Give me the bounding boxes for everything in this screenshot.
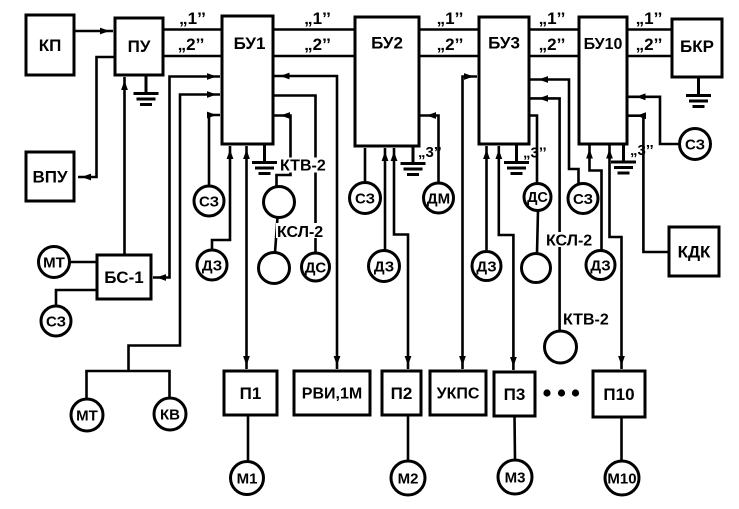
svg-text:М3: М3 — [505, 470, 526, 487]
wire: „1" bus БУ3-БУ10 — [529, 28, 579, 31]
wire ПУ to ВПУ — [78, 57, 115, 177]
circle ДЗ (under БУ10) — [586, 251, 615, 280]
circle СЗ (left) — [41, 306, 71, 336]
svg-text:КСЛ-2: КСЛ-2 — [546, 233, 592, 250]
svg-text:ДЗ: ДЗ — [202, 258, 222, 275]
svg-text:„2’’: „2’’ — [539, 35, 566, 54]
svg-text:„1’’: „1’’ — [304, 9, 331, 28]
svg-text:УКПС: УКПС — [437, 386, 480, 403]
wire: „1" bus БУ2-БУ3 — [419, 28, 479, 31]
svg-text:М1: М1 — [237, 471, 258, 488]
box ПУ — [115, 18, 163, 75]
circle СЗ (under БУ10) — [568, 184, 598, 214]
box БУ1 — [222, 16, 273, 144]
circle М1 — [231, 462, 264, 495]
circle СЗ (right of БКР) — [680, 129, 711, 160]
wire БУ10 bottom to П10 (arrows both ends) — [610, 146, 622, 370]
svg-text:БС-1: БС-1 — [104, 268, 143, 287]
box БУ2 — [355, 17, 419, 146]
svg-text:„2’’: „2’’ — [437, 35, 464, 54]
circle ДС (right of БУ3) — [524, 184, 551, 211]
ground under БУ10 — [611, 144, 636, 174]
box П1 — [224, 371, 277, 415]
svg-text:КТВ-2: КТВ-2 — [280, 158, 326, 175]
svg-text:ДС: ДС — [305, 260, 327, 277]
wire ДЗ to БУ3 bottom — [485, 146, 488, 252]
svg-text:„1’’: „1’’ — [437, 9, 464, 28]
box УКПС — [430, 371, 486, 415]
svg-text:РВИ,1М: РВИ,1М — [302, 386, 362, 403]
svg-text:СЗ: СЗ — [685, 137, 705, 154]
wire П10 to М10 — [620, 417, 623, 461]
ground under БУ3 — [504, 144, 529, 174]
wire БУ3 right to ДС — [529, 116, 537, 184]
ground under ПУ — [134, 75, 159, 105]
wire СЗ to БС-1 — [56, 290, 97, 306]
svg-text:„2’’: „2’’ — [304, 35, 331, 54]
svg-text:КВ: КВ — [160, 407, 180, 424]
svg-text:КП: КП — [39, 36, 62, 55]
wire БУ10 right to КДК — [627, 116, 669, 252]
circle М3 — [498, 460, 532, 494]
svg-text:МТ: МТ — [43, 255, 65, 272]
svg-text:ДЗ: ДЗ — [590, 258, 610, 275]
wire БУ3 right to КТВ-2 circle lower — [529, 98, 560, 331]
circle КСЛ-2 (unlabeled) — [259, 253, 290, 284]
wire БУ2 bottom to П2 (arrows both ends) — [394, 148, 408, 369]
wire КП to ПУ — [74, 30, 113, 33]
box П3 — [494, 372, 535, 416]
label КСЛ-2 (left) — [276, 223, 326, 238]
circle ДЗ (under БУ3) — [472, 252, 501, 281]
wire ДС to КСЛ-2 circle — [537, 211, 538, 254]
ground under БУ1 — [252, 144, 277, 174]
wire КТВ-2 circle to КСЛ-2 circle — [275, 218, 278, 253]
svg-text:„3’’: „3’’ — [630, 142, 654, 159]
wire ДЗ to БУ10 bottom — [590, 146, 602, 251]
wire БУ1 left / БС-1 right (arrows both ends) — [153, 77, 220, 278]
svg-text:П10: П10 — [603, 385, 634, 404]
dots between П3 and П10 — [543, 389, 550, 396]
svg-text:МТ: МТ — [76, 408, 98, 425]
box БКР — [672, 19, 722, 77]
circle МТ (bottom) — [71, 399, 103, 431]
svg-text:БКР: БКР — [680, 37, 714, 56]
circle ДС (under БУ1) — [302, 253, 330, 281]
label КСЛ-2 (right) — [544, 232, 595, 247]
wire ДМ to БУ2 right — [419, 116, 439, 184]
box КДК — [669, 227, 719, 276]
circle М10 — [605, 461, 639, 495]
svg-text:П2: П2 — [391, 384, 413, 403]
wire П1 to М1 — [247, 415, 250, 462]
svg-text:„1’’: „1’’ — [539, 9, 566, 28]
svg-text:М10: М10 — [607, 471, 636, 488]
circle КСЛ-2 right (unlabeled) — [522, 254, 551, 283]
wire БУ1 right to РВИ,1М (arrows both ends) — [273, 76, 337, 369]
svg-text:БУ1: БУ1 — [234, 34, 266, 53]
svg-text:КДК: КДК — [678, 243, 711, 262]
svg-text:ДС: ДС — [527, 190, 548, 206]
svg-text:М2: М2 — [398, 471, 419, 488]
wire: „2" bus БУ1-БУ2 — [273, 55, 355, 58]
circle КТВ-2 right (unlabeled) — [545, 331, 577, 363]
wire БУ3 left to УКПС (arrows both ends) — [463, 77, 478, 370]
svg-text:„3’’: „3’’ — [418, 144, 442, 161]
svg-text:ДЗ: ДЗ — [476, 259, 496, 276]
circle М2 — [391, 461, 425, 495]
svg-text:ПУ: ПУ — [128, 37, 151, 56]
svg-text:СЗ: СЗ — [199, 194, 219, 211]
svg-text:СЗ: СЗ — [573, 191, 593, 208]
box П10 — [593, 371, 645, 417]
wire СЗ to БУ1 left — [209, 115, 220, 186]
circle ДЗ (under БУ2) — [369, 251, 400, 282]
wire МТ/КВ to БУ1 left — [129, 95, 221, 372]
ground under БКР — [686, 77, 711, 107]
box БУ3 — [479, 17, 529, 144]
svg-text:ДМ: ДМ — [427, 191, 450, 208]
wire: „1" bus БУ10-БКР — [627, 28, 672, 31]
svg-text:СЗ: СЗ — [46, 314, 66, 331]
box КП — [26, 15, 74, 75]
circle МТ (left) — [39, 247, 70, 278]
svg-text:БУ2: БУ2 — [371, 34, 403, 53]
wire ДЗ to БУ1 bottom — [212, 146, 230, 250]
box БС-1 — [97, 255, 151, 299]
label КТВ-2 (left) — [279, 158, 330, 173]
wire П3 to М3 — [513, 416, 516, 460]
svg-text:СЗ: СЗ — [355, 191, 375, 208]
wire: „2" bus БУ2-БУ3 — [419, 55, 479, 58]
box ВПУ — [26, 152, 74, 201]
wire СЗ to БУ2 bottom — [364, 148, 367, 183]
box РВИ,1М — [294, 371, 370, 415]
circle ДМ — [424, 183, 454, 213]
wire БУ3 bottom to П3 (arrows both ends) — [499, 146, 514, 370]
ground under БУ2 — [401, 145, 426, 175]
svg-text:КТВ-2: КТВ-2 — [563, 312, 609, 329]
svg-text:„1’’: „1’’ — [636, 9, 663, 28]
wire: „2" bus БУ3-БУ10 — [529, 55, 579, 58]
wire БС-1 to ПУ bottom — [123, 77, 126, 255]
box БУ10 — [579, 17, 627, 144]
wire МТ/КВ tee bar — [87, 371, 170, 400]
circle ДЗ (under БУ1) — [197, 250, 227, 280]
svg-text:„3’’: „3’’ — [523, 145, 547, 162]
box П2 — [382, 371, 421, 415]
svg-text:БУ10: БУ10 — [584, 36, 623, 53]
svg-text:„2’’: „2’’ — [178, 35, 205, 54]
wire: „2" bus ПУ-БУ1 — [163, 55, 222, 58]
wire: „2" bus БУ10-БКР — [627, 55, 672, 58]
svg-text:ВПУ: ВПУ — [32, 168, 67, 187]
wire БУ3 right to СЗ — [529, 80, 579, 184]
wire СЗ to БУ10 right — [627, 97, 680, 144]
circle СЗ (under БУ1) — [194, 186, 224, 216]
svg-text:П1: П1 — [240, 384, 262, 403]
wire П2 to М2 — [407, 415, 410, 461]
svg-text:П3: П3 — [504, 385, 526, 404]
svg-text:„1’’: „1’’ — [179, 9, 206, 28]
wire БУ1 bottom to П1 (arrows both ends) — [245, 146, 248, 369]
svg-text:ДЗ: ДЗ — [374, 259, 394, 276]
wire БУ1 right to КТВ-2 circle — [273, 116, 291, 187]
wire: „1" bus БУ1-БУ2 — [273, 28, 355, 31]
circle КВ — [154, 398, 186, 430]
wire: „1" bus ПУ-БУ1 — [163, 28, 222, 31]
svg-text:КСЛ-2: КСЛ-2 — [277, 224, 323, 241]
circle СЗ (under БУ2) — [350, 183, 381, 214]
wire БУ1 right to ДС — [273, 96, 316, 254]
wire МТ to БС-1 — [70, 261, 98, 264]
wire ДЗ to БУ2 bottom — [384, 148, 387, 251]
svg-text:БУ3: БУ3 — [488, 34, 520, 53]
circle КТВ-2 (unlabeled) — [264, 187, 295, 218]
svg-text:„2’’: „2’’ — [636, 35, 663, 54]
